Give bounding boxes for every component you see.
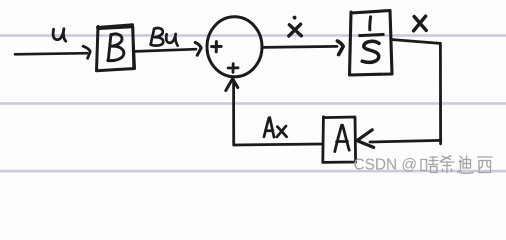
wire: Bu line <box>136 49 197 51</box>
label S (denominator) <box>362 41 379 62</box>
label x (integrator output) <box>414 16 427 31</box>
plus sign (left input) <box>212 42 222 52</box>
block A box <box>323 117 356 163</box>
迪 glyph <box>458 156 474 174</box>
block B box <box>97 25 135 71</box>
ruled line 1 <box>0 34 506 37</box>
希 glyph <box>440 156 455 174</box>
arrowhead into B <box>83 46 90 58</box>
wire: x output to corner <box>393 40 441 44</box>
ruled line 2 <box>0 102 506 105</box>
summing junction circle <box>207 17 262 77</box>
label Bu <box>151 28 178 46</box>
arrowhead into A block <box>357 130 374 148</box>
arrowhead into summing junction bottom <box>226 79 238 91</box>
wire: input u line <box>15 53 87 54</box>
wire: right vertical feedback <box>439 43 442 143</box>
label B (inside block) <box>108 34 124 61</box>
西 glyph <box>477 157 493 173</box>
label 1 (numerator) <box>368 17 372 30</box>
block 1/S box <box>350 11 393 76</box>
label A (inside block) <box>335 125 349 151</box>
fraction bar <box>360 34 384 35</box>
arrowhead into summing junction <box>195 42 201 55</box>
wire: bottom feedback into A <box>370 140 441 142</box>
ruled line 3 <box>0 170 506 173</box>
label u <box>53 29 66 41</box>
wire: Ax line from A to corner <box>234 144 322 145</box>
arrowhead into 1/S <box>337 41 343 55</box>
wire: left vertical feedback up to summing junction <box>232 80 235 145</box>
paper background <box>0 0 506 182</box>
唔 glyph <box>421 157 439 173</box>
label x-dot <box>289 24 302 36</box>
watermark CJK glyphs (drawn) <box>421 156 493 174</box>
plus sign (bottom input) <box>228 64 238 73</box>
svg-text:CSDN @: CSDN @ <box>354 156 418 173</box>
label Ax <box>264 118 287 138</box>
wire: x-dot line <box>263 46 338 47</box>
